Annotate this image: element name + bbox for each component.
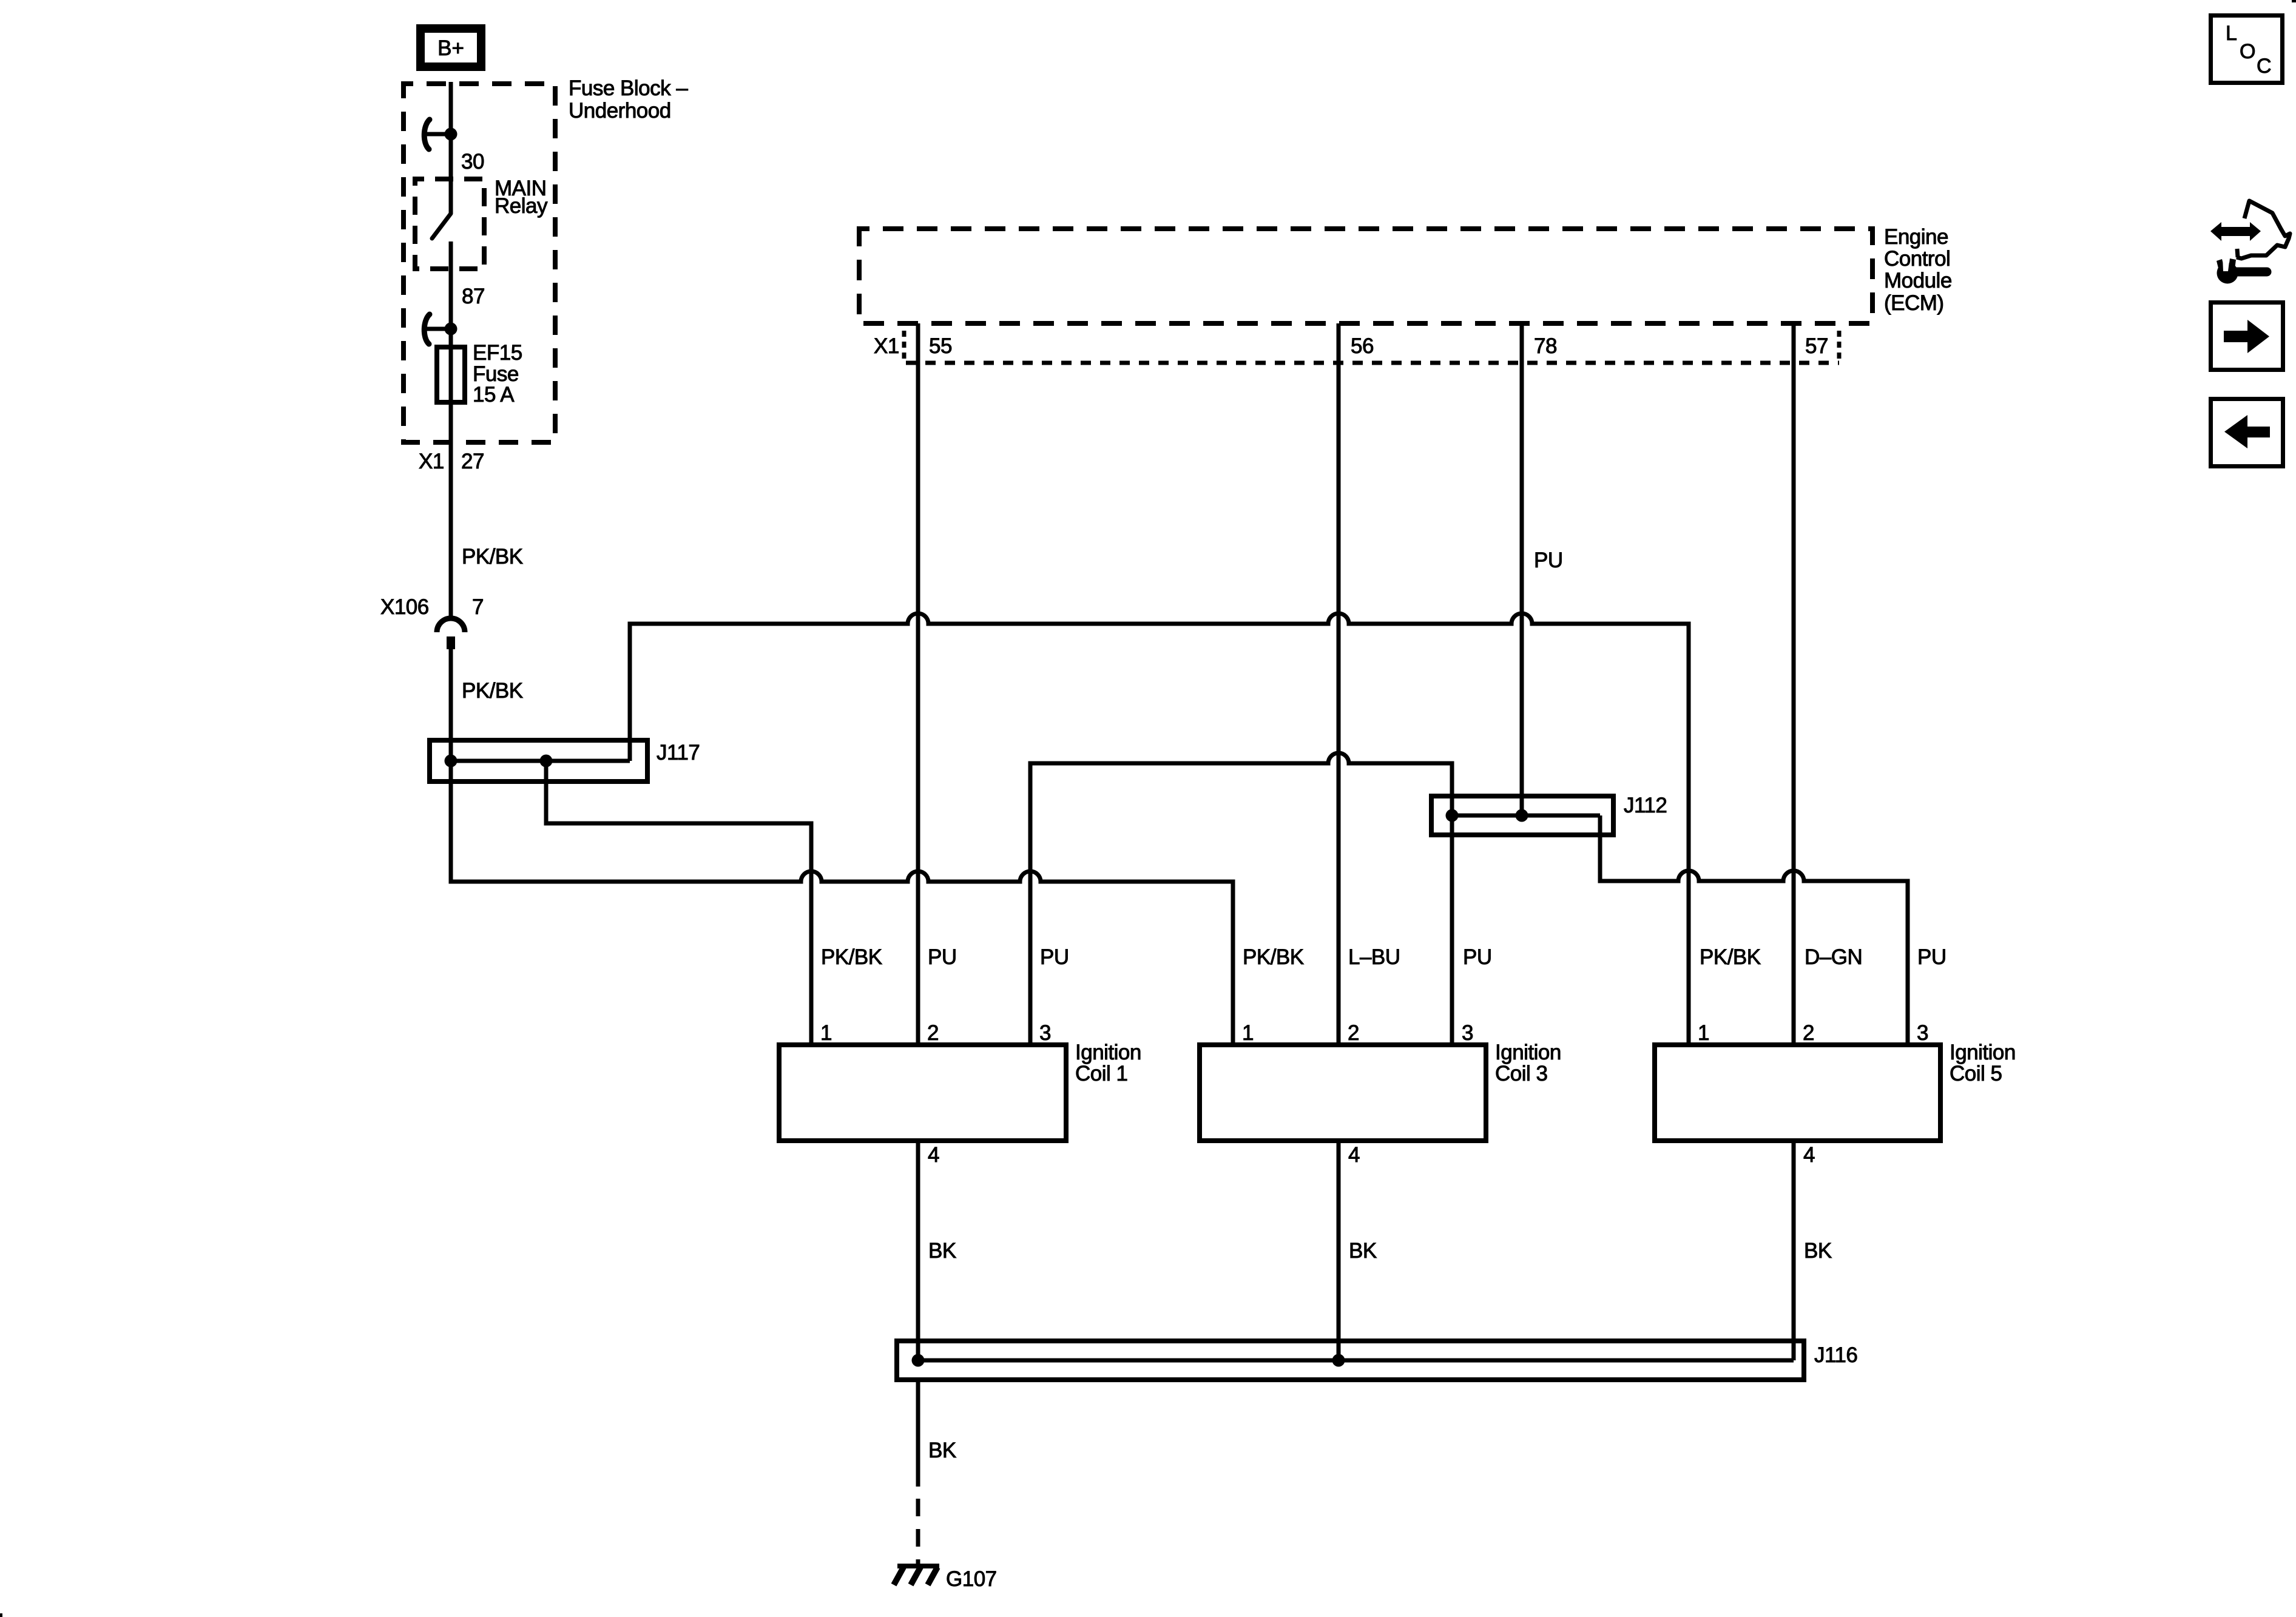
- svg-text:EF15: EF15: [473, 341, 522, 365]
- svg-text:Underhood: Underhood: [569, 99, 671, 123]
- svg-text:Engine: Engine: [1884, 225, 1948, 249]
- svg-text:PK/BK: PK/BK: [1243, 945, 1304, 969]
- svg-text:Ignition: Ignition: [1075, 1041, 1141, 1064]
- svg-text:4: 4: [928, 1143, 939, 1167]
- svg-text:PU: PU: [928, 945, 957, 969]
- svg-text:1: 1: [1698, 1021, 1709, 1045]
- svg-text:J116: J116: [1814, 1343, 1857, 1367]
- svg-text:PK/BK: PK/BK: [1700, 945, 1761, 969]
- svg-text:3: 3: [1462, 1021, 1473, 1045]
- svg-text:Ignition: Ignition: [1495, 1041, 1561, 1064]
- svg-text:X1: X1: [874, 334, 899, 358]
- svg-text:O: O: [2240, 40, 2255, 63]
- svg-text:4: 4: [1348, 1143, 1360, 1167]
- svg-text:57: 57: [1805, 334, 1828, 358]
- svg-text:BK: BK: [1349, 1239, 1377, 1263]
- svg-text:2: 2: [1348, 1021, 1359, 1045]
- svg-text:3: 3: [1039, 1021, 1051, 1045]
- svg-text:C: C: [2257, 55, 2272, 78]
- svg-text:7: 7: [472, 595, 484, 619]
- svg-text:Module: Module: [1884, 269, 1952, 292]
- svg-text:(ECM): (ECM): [1884, 291, 1944, 315]
- svg-text:Coil 3: Coil 3: [1495, 1062, 1547, 1085]
- svg-text:PU: PU: [1463, 945, 1492, 969]
- svg-text:BK: BK: [928, 1439, 956, 1462]
- svg-text:BK: BK: [928, 1239, 956, 1263]
- svg-text:L–BU: L–BU: [1348, 945, 1400, 969]
- svg-text:4: 4: [1803, 1143, 1815, 1167]
- svg-text:2: 2: [1803, 1021, 1814, 1045]
- svg-text:1: 1: [820, 1021, 832, 1045]
- svg-text:X106: X106: [380, 595, 429, 619]
- svg-text:PK/BK: PK/BK: [462, 679, 523, 703]
- svg-text:B+: B+: [437, 36, 464, 60]
- svg-text:27: 27: [461, 450, 484, 473]
- svg-text:PK/BK: PK/BK: [821, 945, 882, 969]
- svg-text:56: 56: [1351, 334, 1374, 358]
- svg-text:Control: Control: [1884, 247, 1950, 271]
- svg-text:30: 30: [461, 150, 484, 174]
- svg-text:Coil 1: Coil 1: [1075, 1062, 1127, 1085]
- svg-text:G107: G107: [946, 1567, 997, 1591]
- svg-text:BK: BK: [1804, 1239, 1832, 1263]
- svg-text:55: 55: [929, 334, 952, 358]
- svg-text:PU: PU: [1917, 945, 1947, 969]
- svg-text:87: 87: [462, 285, 485, 308]
- svg-text:J117: J117: [657, 741, 700, 765]
- svg-text:Coil 5: Coil 5: [1950, 1062, 2002, 1085]
- svg-text:Ignition: Ignition: [1950, 1041, 2016, 1064]
- svg-text:PK/BK: PK/BK: [462, 545, 523, 569]
- svg-text:2: 2: [927, 1021, 939, 1045]
- svg-text:PU: PU: [1534, 549, 1563, 572]
- svg-text:L: L: [2226, 22, 2237, 45]
- svg-text:X1: X1: [419, 450, 444, 473]
- svg-text:PU: PU: [1040, 945, 1069, 969]
- svg-text:1: 1: [1242, 1021, 1254, 1045]
- svg-text:3: 3: [1917, 1021, 1928, 1045]
- svg-text:Relay: Relay: [495, 194, 548, 218]
- svg-text:J112: J112: [1624, 794, 1667, 817]
- svg-text:Fuse Block –: Fuse Block –: [569, 76, 688, 100]
- svg-text:15 A: 15 A: [473, 383, 515, 407]
- svg-text:78: 78: [1534, 334, 1557, 358]
- svg-text:D–GN: D–GN: [1805, 945, 1862, 969]
